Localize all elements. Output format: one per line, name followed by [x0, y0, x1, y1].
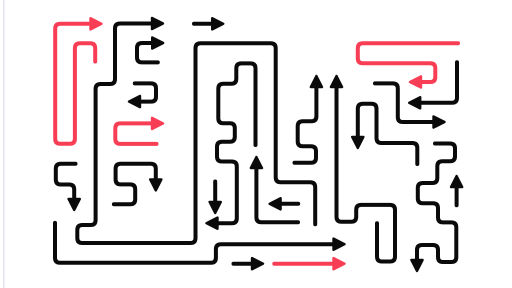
black path B19 (bottom-left long, right arrow) — [55, 223, 345, 263]
red path P2 (mid-left Z, arrow right) — [115, 118, 163, 144]
left page-edge line — [3, 0, 5, 288]
red arrow P4 (bottom, arrow right) — [274, 258, 344, 269]
black path B6 (S-spiral, down arrow) — [114, 164, 161, 204]
black path B5 (left 5-spiral, down arrow) — [56, 164, 80, 210]
black arrow B11 (standalone left arrow) — [270, 198, 299, 209]
red path P1 (top-left long hook, arrow right) — [55, 18, 101, 144]
black path B14 (n-shape, down arrow) — [352, 104, 417, 164]
black path B1 (top-left mega path, arrow right) — [77, 18, 315, 243]
black arrow B18 (small up arrow right) — [451, 176, 462, 205]
black arrow B2 (short top arrow) — [194, 18, 223, 29]
black arrow B20 (short right arrow) — [234, 258, 264, 269]
black path B8 (center staircase, left arrow) — [207, 63, 256, 228]
black path B10 (up-arrow-2 long path) — [331, 76, 395, 262]
black path B17 (right zigzag spiral, down arrow) — [411, 144, 456, 272]
black path B3 (hook with right arrow) — [137, 37, 163, 62]
black path B15 (top-right, right arrow) — [375, 83, 445, 127]
black path B9 (up-arrow-1 zigzag) — [295, 76, 323, 163]
black path B16 (right box, left arrow) — [409, 62, 457, 108]
red path P3 (top-right, arrow left) — [358, 43, 458, 87]
black path B4 (hook with left arrow) — [129, 83, 156, 107]
black path B12 (up arrow to cap) — [251, 157, 298, 222]
black arrow B7 (mid down arrow) — [210, 182, 221, 214]
